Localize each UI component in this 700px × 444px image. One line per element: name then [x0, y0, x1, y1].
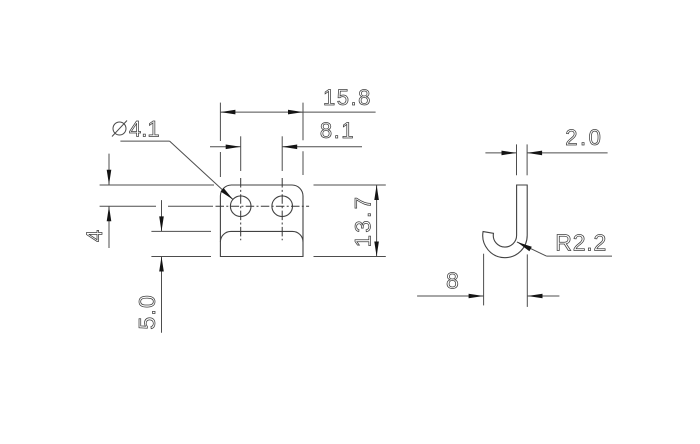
svg-text:2.0: 2.0	[565, 125, 603, 150]
svg-text:8.1: 8.1	[320, 118, 355, 143]
svg-text:4: 4	[82, 229, 107, 242]
svg-text:5.0: 5.0	[134, 294, 160, 330]
svg-text:15.8: 15.8	[323, 85, 372, 110]
svg-text:R2.2: R2.2	[555, 230, 607, 256]
svg-text:13.7: 13.7	[351, 194, 376, 247]
svg-text:4.1: 4.1	[129, 117, 160, 142]
svg-text:8: 8	[446, 267, 460, 293]
